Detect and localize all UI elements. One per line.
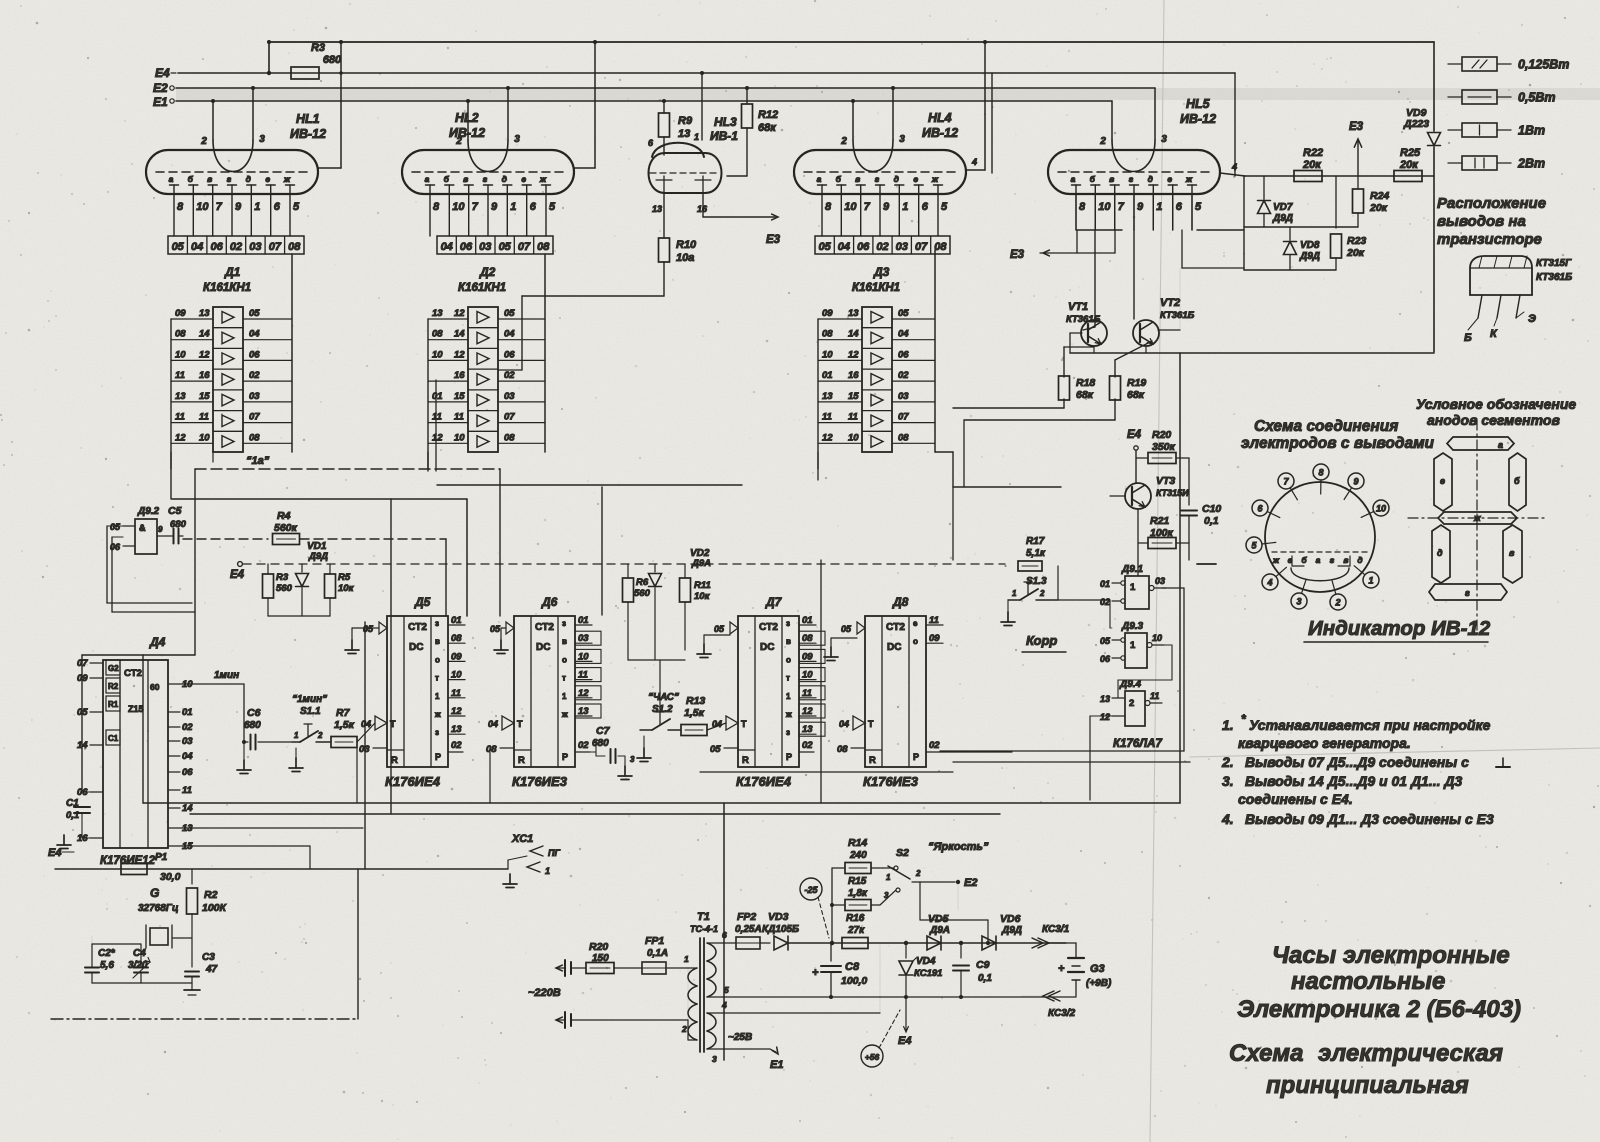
svg-text:электродов с выводами: электродов с выводами (1241, 435, 1435, 452)
svg-text:С8: С8 (845, 961, 860, 973)
svg-text:ТС-4-1: ТС-4-1 (690, 924, 718, 934)
svg-text:з: з (786, 728, 790, 737)
resistor R21 (1138, 509, 1189, 549)
svg-text:C1: C1 (108, 734, 119, 743)
svg-text:С3: С3 (202, 952, 215, 963)
svg-text:CT2: CT2 (759, 622, 778, 633)
svg-text:S2: S2 (896, 847, 909, 859)
svg-text:08: 08 (898, 432, 909, 443)
svg-text:а: а (1316, 555, 1321, 565)
svg-text:в: в (562, 637, 567, 646)
svg-text:R: R (742, 755, 749, 766)
svg-text:Устанавливается при настройк: Устанавливается при настройке (1249, 717, 1491, 733)
switch S1.1 (289, 694, 330, 772)
svg-text:05: 05 (841, 624, 852, 634)
svg-text:КТ361Б: КТ361Б (1160, 310, 1195, 321)
svg-text:68к: 68к (1127, 389, 1145, 401)
wire mains bottom (571, 1019, 688, 1021)
svg-text:о: о (913, 637, 918, 646)
svg-text:VD3: VD3 (768, 911, 789, 923)
svg-text:Д9.4: Д9.4 (1119, 679, 1142, 690)
svg-text:ПГ: ПГ (548, 848, 560, 858)
svg-text:КТ315Г: КТ315Г (1536, 258, 1572, 269)
resistor R7 (331, 707, 375, 748)
svg-text:&: & (139, 523, 146, 533)
connector XC1 (503, 833, 560, 888)
svg-text:09: 09 (451, 651, 462, 662)
svg-text:3: 3 (899, 134, 905, 145)
svg-text:10к: 10к (338, 583, 355, 594)
svg-text:д: д (1148, 174, 1153, 184)
svg-text:Т1: Т1 (697, 911, 710, 923)
svg-text:02: 02 (898, 370, 909, 381)
svg-text:д: д (1357, 555, 1362, 565)
IC D8 (К176ИЕ3) (837, 595, 1012, 789)
switch S1.2 (637, 692, 680, 762)
svg-text:Т: Т (868, 719, 874, 729)
svg-text:0,5Вт: 0,5Вт (1518, 91, 1556, 105)
svg-text:ж: ж (1185, 174, 1193, 184)
ground (237, 742, 251, 774)
svg-text:47: 47 (205, 964, 218, 975)
svg-text:3: 3 (884, 891, 889, 900)
svg-text:К161КН1: К161КН1 (458, 282, 506, 294)
svg-text:1: 1 (510, 201, 516, 213)
svg-text:4: 4 (1231, 162, 1237, 172)
svg-text:1: 1 (254, 201, 260, 213)
svg-text:16: 16 (454, 370, 465, 381)
svg-text:02: 02 (802, 740, 813, 751)
svg-text:20к: 20к (1346, 247, 1365, 259)
svg-text:1мин: 1мин (214, 670, 239, 681)
mains plug pins (556, 960, 571, 1028)
switch S2 Яркость (880, 841, 989, 905)
svg-text:05: 05 (172, 241, 185, 253)
annotation: transistor pinout (1437, 195, 1546, 248)
svg-text:в: в (1109, 174, 1114, 184)
svg-text:09: 09 (929, 633, 940, 644)
svg-text:07: 07 (249, 412, 260, 423)
svg-text:03: 03 (504, 391, 515, 402)
svg-text:13: 13 (432, 308, 443, 319)
svg-text:12: 12 (802, 706, 813, 717)
svg-text:Д9.3: Д9.3 (1121, 621, 1144, 632)
wire E4 bus (178, 71, 1235, 75)
svg-text:10: 10 (1376, 504, 1386, 514)
svg-text:К161КН1: К161КН1 (203, 282, 251, 294)
svg-text:К176ЛА7: К176ЛА7 (1113, 738, 1162, 750)
svg-text:08: 08 (175, 329, 186, 340)
battery G3 (1058, 943, 1112, 996)
svg-text:1,5к: 1,5к (684, 707, 705, 719)
svg-text:R3: R3 (311, 42, 325, 54)
svg-text:04: 04 (361, 719, 371, 729)
svg-text:3: 3 (514, 134, 520, 145)
svg-text:Д6: Д6 (541, 595, 558, 609)
svg-text:7: 7 (864, 201, 871, 213)
resistor R2 (187, 869, 228, 967)
resistor R10 (499, 193, 697, 370)
wire D1 bottom (171, 452, 213, 499)
wire D1 output bus (291, 254, 293, 452)
resistor R25 (1394, 147, 1422, 182)
paper fold lines (1150, 0, 1600, 1142)
svg-text:68к: 68к (758, 122, 777, 134)
svg-text:10к: 10к (694, 591, 711, 602)
svg-text:С5: С5 (168, 505, 182, 517)
svg-text:Д9.1: Д9.1 (1121, 564, 1144, 575)
wire D9 chain (1110, 588, 1184, 751)
svg-text:11: 11 (822, 412, 832, 423)
svg-text:10: 10 (175, 349, 186, 360)
wire (172, 937, 192, 939)
svg-text:E3: E3 (1349, 121, 1364, 133)
svg-text:G2: G2 (108, 664, 119, 673)
svg-text:05: 05 (110, 522, 121, 532)
ground at D8 (824, 638, 857, 661)
svg-text:10: 10 (848, 432, 859, 443)
svg-text:С7: С7 (596, 725, 611, 737)
svg-text:Электроника 2 (Б6-403): Электроника 2 (Б6-403) (1237, 996, 1521, 1023)
svg-text:кварцевого генератора.: кварцевого генератора. (1238, 735, 1411, 751)
svg-text:0,1: 0,1 (66, 810, 79, 821)
svg-text:01: 01 (1100, 579, 1110, 589)
svg-text:100,0: 100,0 (841, 975, 867, 987)
svg-text:05: 05 (714, 624, 725, 634)
svg-text:2: 2 (840, 136, 847, 147)
svg-text:1.: 1. (1222, 717, 1234, 733)
svg-text:680: 680 (170, 519, 187, 530)
svg-text:7: 7 (472, 201, 479, 213)
annotation: segment designation title (1416, 396, 1576, 428)
svg-text:02: 02 (1100, 597, 1110, 607)
svg-text:HL2: HL2 (455, 111, 479, 125)
svg-text:КС3/1: КС3/1 (1042, 924, 1070, 935)
svg-text:03: 03 (249, 391, 260, 402)
svg-text:г: г (875, 174, 880, 184)
resistor R18 (1059, 347, 1096, 408)
svg-text:4: 4 (1266, 578, 1272, 588)
svg-text:принципиальная: принципиальная (1266, 1072, 1469, 1099)
svg-text:E4: E4 (1127, 429, 1142, 441)
crystal resonator G 32768Гц (92, 886, 178, 948)
svg-text:Д223: Д223 (1403, 118, 1429, 130)
svg-text:DC: DC (887, 642, 901, 653)
svg-text:100К: 100К (202, 902, 228, 914)
wire 1min (180, 670, 246, 744)
svg-text:VD8: VD8 (1300, 240, 1320, 251)
svg-text:12: 12 (199, 349, 210, 360)
capacitor C4 (3/20 trimmer) (128, 944, 150, 983)
svg-text:Z15: Z15 (128, 704, 144, 714)
svg-text:R14: R14 (848, 837, 867, 849)
svg-text:P: P (435, 752, 441, 762)
svg-text:0,25А: 0,25А (735, 924, 762, 935)
wire long rail 2 (190, 813, 1000, 815)
svg-text:11: 11 (175, 412, 185, 423)
svg-text:R: R (391, 755, 398, 766)
svg-text:02: 02 (929, 740, 940, 751)
svg-text:3: 3 (712, 1054, 717, 1064)
svg-text:Выводы 09 Д1... Д3 соединен: Выводы 09 Д1... Д3 соединены с Е3 (1245, 811, 1494, 827)
wire (1090, 716, 1112, 800)
svg-text:11: 11 (1150, 691, 1159, 701)
svg-text:06: 06 (460, 241, 473, 253)
svg-text:С6: С6 (247, 707, 261, 719)
resistor R24 (1353, 176, 1390, 227)
svg-text:S1.1: S1.1 (300, 706, 321, 717)
circle +56 (861, 1010, 900, 1067)
svg-text:С4: С4 (133, 948, 146, 959)
svg-text:HL5: HL5 (1186, 97, 1211, 111)
wire (722, 943, 880, 1013)
svg-text:б: б (444, 174, 450, 184)
svg-text:15: 15 (848, 391, 859, 402)
svg-text:8: 8 (1079, 201, 1086, 213)
wire D2 bottom (428, 380, 436, 471)
svg-text:01: 01 (451, 615, 462, 626)
svg-text:06: 06 (249, 349, 260, 360)
svg-text:R5: R5 (338, 572, 351, 583)
resistor R6 (623, 564, 651, 660)
node E2 bottom (956, 877, 978, 910)
svg-text:02: 02 (876, 241, 888, 253)
svg-text:3: 3 (1296, 597, 1301, 607)
svg-text:Д1: Д1 (224, 265, 241, 279)
svg-text:1: 1 (435, 692, 440, 701)
svg-text:CT2: CT2 (886, 622, 905, 633)
svg-text:R3: R3 (276, 572, 289, 583)
svg-text:а: а (1071, 174, 1076, 184)
wire (268, 615, 330, 617)
svg-text:04: 04 (182, 751, 193, 762)
svg-text:б: б (1514, 476, 1520, 486)
resistor R13 (681, 695, 726, 736)
svg-text:R6: R6 (636, 577, 649, 588)
svg-text:б: б (188, 174, 194, 184)
wire HL5 pin mesh (1010, 194, 1244, 330)
svg-text:06: 06 (1100, 654, 1111, 664)
wire (575, 751, 596, 753)
wire (953, 487, 1061, 560)
svg-text:08: 08 (802, 633, 813, 644)
wire (953, 407, 1064, 409)
svg-text:32768Гц: 32768Гц (138, 903, 178, 914)
resistor R14 (830, 837, 883, 945)
svg-text:КТ361Б: КТ361Б (1536, 272, 1572, 283)
diode VD7 (Д9Д) (1258, 176, 1294, 227)
svg-text:E4: E4 (898, 1035, 911, 1047)
svg-text:анодов сегментов: анодов сегментов (1427, 412, 1560, 428)
svg-text:2: 2 (1039, 589, 1045, 598)
wire E1 bus (176, 100, 1112, 102)
svg-text:Д3: Д3 (873, 265, 890, 279)
circle -25 (800, 878, 829, 938)
svg-text:ИВ-12: ИВ-12 (449, 126, 485, 140)
wire anode row (1245, 175, 1434, 177)
svg-text:10: 10 (844, 201, 857, 213)
svg-text:HL4: HL4 (928, 111, 952, 125)
svg-text:г: г (1465, 588, 1470, 598)
resistor R23 (1331, 176, 1367, 270)
svg-text:14: 14 (848, 329, 859, 340)
node E4 (155, 66, 176, 80)
svg-text:е: е (1440, 476, 1445, 486)
svg-text:680: 680 (323, 54, 342, 66)
svg-text:10: 10 (1098, 201, 1111, 213)
svg-text:КД105Б: КД105Б (762, 924, 799, 935)
svg-text:CT2: CT2 (535, 622, 554, 633)
svg-text:Б: Б (1464, 332, 1472, 344)
svg-text:электрическая: электрическая (1318, 1040, 1503, 1067)
wire D3 output bus (934, 250, 936, 452)
vacuum tube HL3 (ИВ-1) (648, 115, 738, 214)
svg-text:R25: R25 (1400, 147, 1421, 159)
svg-text:7: 7 (1118, 201, 1125, 213)
svg-text:9: 9 (235, 201, 242, 213)
svg-text:60: 60 (150, 682, 160, 692)
svg-text:1: 1 (1130, 582, 1136, 593)
wire HL3 pin1 to E4 (701, 73, 703, 140)
svg-text:0,125Вт: 0,125Вт (1518, 58, 1569, 72)
svg-text:VD7: VD7 (1273, 202, 1293, 213)
svg-text:К176ИЕ3: К176ИЕ3 (863, 774, 919, 789)
svg-text:R2: R2 (204, 889, 218, 901)
resistor R11 (680, 564, 711, 650)
svg-text:т: т (435, 674, 439, 683)
svg-text:12: 12 (454, 349, 465, 360)
fuse FP1 (0,1А) (642, 935, 688, 974)
svg-text:R20: R20 (1152, 429, 1171, 441)
svg-text:07: 07 (269, 241, 282, 253)
svg-text:E3: E3 (1010, 249, 1025, 261)
svg-text:560: 560 (276, 583, 293, 594)
svg-text:г: г (483, 174, 488, 184)
svg-text:Условное обозначение: Условное обозначение (1416, 396, 1576, 412)
svg-text:ИВ-12: ИВ-12 (290, 127, 326, 141)
svg-text:д: д (246, 174, 251, 184)
resistor R12 (727, 88, 778, 176)
label 220V (528, 987, 561, 999)
wire rail 3 (940, 750, 1184, 752)
svg-text:Д9Д: Д9Д (1001, 925, 1022, 936)
svg-text:4: 4 (721, 1000, 727, 1010)
resistor R15 (830, 876, 880, 911)
wire left box edge (82, 655, 195, 803)
resistor R22 (1294, 147, 1323, 182)
wire verticals (365, 499, 391, 869)
label К176ЛА7 (1113, 738, 1162, 750)
svg-text:6: 6 (722, 930, 727, 940)
svg-text:11: 11 (199, 412, 209, 423)
svg-text:10: 10 (196, 201, 209, 213)
svg-text:1: 1 (1012, 589, 1017, 598)
svg-text:05: 05 (490, 624, 501, 634)
svg-text:02: 02 (578, 740, 589, 751)
svg-text:а: а (1498, 440, 1503, 450)
wire top E3 bus (268, 41, 1434, 43)
svg-text:VD6: VD6 (1000, 913, 1021, 925)
svg-text:а: а (817, 174, 822, 184)
svg-text:12: 12 (451, 706, 462, 717)
svg-text:3: 3 (1161, 134, 1167, 145)
svg-text:08: 08 (537, 241, 550, 253)
resistor R20 mains (150) (571, 941, 642, 974)
svg-text:Д5: Д5 (414, 595, 431, 609)
wire HL5 anode (1220, 162, 1245, 176)
connector XC3/2 (1022, 991, 1076, 1019)
svg-text:08: 08 (822, 329, 833, 340)
diode VD9 (Д223) (1403, 42, 1441, 352)
wire return rail (722, 996, 1076, 998)
svg-text:560: 560 (634, 588, 651, 599)
svg-text:10: 10 (451, 670, 462, 681)
wire D4 outputs (180, 828, 363, 869)
wire bus to D5 (172, 499, 467, 616)
svg-text:FP1: FP1 (645, 935, 664, 947)
node E1 (153, 95, 174, 109)
svg-text:1: 1 (902, 201, 908, 213)
svg-text:ХС1: ХС1 (511, 833, 533, 845)
svg-text:08: 08 (451, 633, 462, 644)
svg-text:R9: R9 (678, 115, 693, 127)
resistor R17 (1018, 536, 1046, 571)
svg-text:HL1: HL1 (296, 112, 320, 126)
svg-text:E1: E1 (770, 1059, 783, 1071)
svg-text:03: 03 (578, 633, 589, 644)
svg-text:“1мин”: “1мин” (292, 694, 327, 705)
svg-text:06: 06 (898, 349, 909, 360)
svg-text:16: 16 (848, 370, 859, 381)
svg-text:10: 10 (822, 349, 833, 360)
wire D3 bottom (818, 452, 953, 487)
svg-text:5: 5 (941, 201, 948, 213)
svg-text:в: в (855, 174, 860, 184)
svg-text:11: 11 (175, 370, 185, 381)
svg-text:13: 13 (1100, 694, 1110, 704)
wire (1244, 176, 1336, 270)
svg-text:Д4: Д4 (149, 635, 166, 649)
svg-text:з: з (435, 619, 439, 628)
svg-text:С10: С10 (1202, 503, 1221, 515)
svg-text:13: 13 (175, 391, 186, 402)
wire D2 to D7 (437, 484, 742, 486)
svg-text:8: 8 (825, 201, 832, 213)
svg-text:01: 01 (822, 370, 833, 381)
svg-text:VT1: VT1 (1068, 301, 1088, 313)
svg-text:0,1А: 0,1А (647, 948, 668, 959)
svg-text:10: 10 (578, 651, 589, 662)
svg-text:в: в (435, 637, 440, 646)
svg-text:10: 10 (802, 670, 813, 681)
svg-text:10: 10 (452, 201, 465, 213)
svg-text:VD4: VD4 (916, 956, 936, 967)
wire bus 1a (195, 455, 500, 469)
svg-text:R: R (869, 755, 876, 766)
svg-text:12: 12 (175, 432, 186, 443)
capacitor C9 (953, 941, 992, 997)
svg-text:Т: Т (517, 719, 523, 729)
svg-text:07: 07 (504, 412, 515, 423)
svg-text:G3: G3 (1090, 963, 1105, 975)
svg-text:Корр: Корр (1026, 633, 1057, 648)
wire right box edge (1179, 353, 1181, 803)
svg-text:07: 07 (518, 241, 531, 253)
svg-text:ИВ-12: ИВ-12 (1180, 112, 1216, 126)
svg-text:С1: С1 (66, 798, 79, 809)
svg-text:14: 14 (182, 803, 193, 814)
svg-text:R18: R18 (1076, 377, 1095, 389)
